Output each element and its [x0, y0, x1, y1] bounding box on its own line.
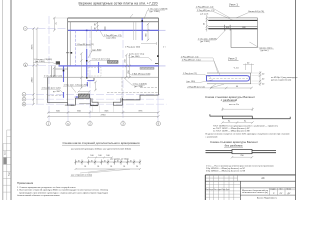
axis circle 3: [121, 121, 125, 125]
left grid verticals: [208, 175, 210, 200]
svg-text:(дл. 1300): (дл. 1300): [35, 61, 45, 63]
left wall line inner: [69, 22, 71, 66]
svg-text:производить при обвязке армату: производить при обвязке арматуры с карка…: [19, 191, 108, 194]
svg-text:В одном сечении стыкуется не б: В одном сечении стыкуется не более 50% а…: [206, 134, 291, 136]
axis row V horizontal: [28, 64, 58, 66]
bottom dim ticks 1: [47, 111, 159, 113]
node1 lower beam thick line: [208, 28, 257, 30]
node1 lower-left label leader: [216, 30, 226, 40]
svg-text:дл. 200: дл. 200: [53, 91, 61, 93]
blue rebar vertical at axis mid: [86, 49, 88, 78]
svg-text:250: 250: [125, 59, 127, 62]
axis row A horizontal: [26, 103, 167, 105]
header row for stage: [270, 189, 296, 191]
axis line 2 vertical: [89, 30, 91, 121]
node2 bottom dim: [211, 87, 252, 89]
svg-text:20: 20: [136, 166, 138, 168]
hatched embed plate mid: [140, 67, 154, 69]
strip verticals: [6, 130, 8, 200]
small dim x95.5 lower: [95, 82, 97, 90]
node1 lower mesh thin line: [208, 25, 257, 27]
axis line 1 vertical: [48, 16, 50, 121]
svg-text:(дл. 1300): (дл. 1300): [150, 11, 160, 13]
splice1 bar bottom: [222, 118, 290, 120]
splice1 bar hooks: [210, 114, 290, 118]
dim above bottom hatch plate: [79, 91, 90, 93]
svg-text:с разбежкой: с разбежкой: [206, 135, 219, 138]
axis circle 1: [46, 121, 50, 125]
strip horizontals narrow top: [7, 129, 11, 131]
svg-text:деталь закрепления): деталь закрепления): [271, 79, 292, 81]
svg-text:обвязочного пояса (м): обвязочного пояса (м): [242, 192, 268, 194]
divider before AC cell: [237, 175, 239, 181]
svg-text:с разбежкой: с разбежкой: [221, 98, 238, 102]
dashed inner horizontal y92.5: [107, 92, 158, 94]
channel top gray line: [207, 72, 251, 74]
plan top edge line second: [68, 21, 159, 23]
inner horizontal line y77: [48, 76, 158, 78]
sheet title underline: [79, 4, 158, 6]
extension line from top dim: [53, 17, 68, 19]
axis circle 5: [156, 121, 160, 125]
svg-text:10: 10: [117, 160, 119, 162]
left wall line outer: [67, 18, 69, 103]
splice2 bar bottom: [206, 152, 277, 154]
svg-text:3675: 3675: [32, 44, 34, 50]
splice1 top dim line: [222, 108, 252, 110]
inner dim x97: [97, 22, 99, 31]
left/right divider: [239, 181, 241, 200]
right part horizontals: [240, 187, 295, 189]
svg-text:250: 250: [128, 70, 130, 73]
svg-text:АС: АС: [261, 177, 265, 180]
axis circle V: [24, 63, 28, 67]
blue rebar vertical left: [63, 66, 65, 82]
svg-text:Подп.: Подп.: [8, 171, 10, 176]
inner dim x81.3: [80, 54, 82, 89]
svg-text:по ГОСТ 14098 — Ø8мм (Балкент): по ГОСТ 14098 — Ø8мм (Балкент) N8: [213, 131, 250, 133]
svg-text:Узел 1: Узел 1: [229, 2, 238, 6]
dashed inner horizontal y87.7: [140, 87, 157, 89]
dark block near axis V: [56, 61, 60, 64]
mesh edge pair x133: [132, 22, 134, 40]
leader label A: [100, 31, 104, 37]
hatched embed plate bottom: [79, 94, 90, 99]
svg-text:20: 20: [110, 166, 112, 168]
blue rebar vertical mid2: [98, 62, 100, 73]
svg-text:3 Вр 1Ø8/200 — Ø8мм (пр.Балкен: 3 Вр 1Ø8/200 — Ø8мм (пр.Балкент) по N8: [206, 171, 246, 173]
leader label C: [88, 51, 92, 58]
dark tick near blue corner: [93, 78, 95, 81]
svg-text:шаг рабочей арматуры 200мм, ша: шаг рабочей арматуры 200мм, шаг дополнит…: [71, 147, 132, 150]
axis row B2 horizontal: [26, 98, 166, 100]
svg-text:Схема шагов стержней дополните: Схема шагов стержней дополнительного арм…: [63, 141, 140, 145]
svg-text:базальтовой обвязке и проволоч: базальтовой обвязке и проволочками.: [17, 194, 60, 197]
svg-text:100: 100: [98, 155, 101, 157]
svg-text:Узел 2: Узел 2: [228, 57, 237, 61]
svg-text:(до бет.): (до бет.): [261, 50, 269, 52]
node1 bottom label leader: [250, 42, 259, 47]
svg-text:(шаг 200): (шаг 200): [107, 38, 116, 40]
plan top edge line thin: [68, 17, 159, 19]
svg-text:Согл.: Согл.: [5, 150, 7, 155]
node1 upper beam thick line: [208, 19, 257, 21]
svg-text:Верхние арматурные сетки плиты: Верхние арматурные сетки плиты на отм. +…: [79, 1, 158, 5]
paper background: [0, 0, 300, 200]
lower-left block outline: [48, 77, 159, 105]
mid blue slab line light tail: [159, 65, 166, 67]
lower-left inner box lines: [56, 68, 68, 70]
short dark dash right of hatch2: [155, 63, 158, 65]
svg-text:100: 100: [90, 155, 93, 157]
top small dim at x57: [53, 18, 55, 30]
weld tick slashes: [74, 161, 141, 163]
axis line 5 vertical lower: [157, 96, 159, 122]
junction dot bottom: [86, 77, 88, 79]
svg-text:(дл. 1300): (дл. 1300): [200, 41, 210, 43]
dim beside right blue vertical: [147, 24, 149, 40]
node1 inner wall line: [230, 29, 232, 48]
svg-text:Лист: Лист: [279, 188, 283, 190]
legend 3 lines: [206, 165, 274, 172]
axis row B horizontal: [26, 93, 160, 95]
weld bottom dim line: [76, 168, 141, 170]
small tick above blue line mid: [104, 27, 106, 31]
weld main dim line: [76, 161, 141, 163]
axis row G horizontal: [28, 28, 69, 30]
axis line 3 vertical: [122, 30, 124, 121]
gray signature cell: [3, 158, 6, 165]
top blue slab line light tail: [159, 29, 166, 31]
svg-text:(дл. 200): (дл. 200): [134, 86, 143, 88]
junction dot on blue line 1: [86, 30, 88, 32]
axis circle 1a: [66, 121, 70, 125]
mid blue slab line: [59, 65, 160, 67]
blue rebar corner lower-mid: [86, 82, 88, 87]
svg-text:Листов: Листов: [286, 188, 291, 190]
right wall line: [157, 18, 159, 95]
svg-text:20: 20: [97, 166, 99, 168]
channel blue outline: [207, 76, 250, 81]
svg-text:600: 600: [242, 27, 245, 29]
dashed inner vertical x122: [121, 77, 123, 103]
bottom dim line 2: [48, 115, 158, 117]
node1 vertical ticks on lower pair: [225, 25, 231, 31]
left dim chain vertical 2: [36, 29, 38, 105]
staple bracket left: [91, 98, 99, 105]
svg-text:30: 30: [203, 23, 205, 25]
hatched embed plate top: [108, 61, 119, 64]
axis line 1a vertical lower: [67, 103, 69, 121]
faint midline between staples: [98, 101, 113, 103]
junction dot right: [141, 20, 143, 22]
frame left border: [10, 0, 12, 200]
svg-text:2750: 2750: [101, 114, 107, 116]
axis circle A: [22, 102, 26, 106]
dashed box right of blue vertical: [88, 67, 101, 76]
axis circle B2: [22, 97, 26, 101]
node2 right dim vertical: [259, 71, 261, 86]
svg-text:10: 10: [91, 160, 93, 162]
svg-text:40: 40: [94, 28, 96, 30]
svg-text:2830: 2830: [32, 77, 34, 83]
right columns verticals: [269, 188, 271, 195]
channel inner dashed: [209, 77, 248, 79]
svg-text:ГОСТ 14098-91 стык арматуры вн: ГОСТ 14098-91 стык арматуры внахлёст с р…: [213, 124, 278, 127]
light upper extension of blue vertical: [86, 32, 88, 50]
svg-text:1 Ряд (шаг 200): 1 Ряд (шаг 200): [125, 46, 140, 48]
staple bracket right: [113, 98, 122, 105]
svg-text:100: 100: [106, 155, 109, 157]
junction dot on wall: [71, 52, 73, 54]
svg-text:ш.6 кат.6: ш.6 кат.6: [200, 14, 209, 16]
splice2 dim: [232, 156, 252, 158]
blue rebar vertical right: [141, 18, 143, 40]
splice1 bar top: [210, 115, 253, 117]
svg-text:300: 300: [226, 27, 229, 29]
node1 left dim vertical: [206, 15, 208, 32]
svg-text:~1.10: ~1.10: [233, 68, 239, 70]
node1 slab bottom: [231, 47, 258, 49]
svg-text:шаг не 1/а: шаг не 1/а: [229, 104, 240, 106]
weld bottom leaders: [80, 169, 130, 173]
svg-text:2. Выставление стержней армату: 2. Выставление стержней арматуры В500 на…: [17, 189, 108, 192]
junction dot top: [86, 60, 88, 62]
weld ticks: [76, 160, 141, 165]
svg-text:10: 10: [130, 160, 132, 162]
svg-text:20: 20: [123, 166, 125, 168]
svg-text:Стадия: Стадия: [270, 188, 275, 190]
left dim chain vertical 1: [33, 29, 35, 105]
extension lines below staples: [93, 106, 123, 113]
slab edge step lines under hatch: [79, 104, 98, 106]
sheet edge line: [2, 0, 4, 200]
node1 upper mesh thin line: [208, 17, 257, 19]
strip horizontals full: [3, 149, 11, 151]
bottom dim line 1: [48, 111, 158, 113]
full width row line: [205, 180, 295, 182]
inner dim x126.5 pair: [125, 55, 127, 77]
svg-text:10: 10: [78, 160, 80, 162]
left grid horizontals: [205, 184, 240, 186]
svg-text:без разбежки: без разбежки: [225, 143, 243, 147]
channel end plate vertical: [249, 73, 251, 84]
blue rebar vertical lower-left: [63, 92, 65, 98]
svg-text:10: 10: [104, 160, 106, 162]
dashed inner vertical at 75.5: [75, 30, 77, 65]
splice1 bottom dim: [222, 122, 252, 124]
mesh edge vertical x91: [90, 26, 92, 52]
svg-text:Авалон Недвижимость: Авалон Недвижимость: [257, 196, 277, 199]
node1 slab right edge: [257, 18, 259, 48]
svg-text:Примечания: Примечания: [17, 181, 34, 185]
bottom dim ticks 2: [47, 115, 159, 117]
axis circle G: [23, 27, 27, 31]
left dim ticks: [32, 27, 38, 105]
svg-text:1. Отметки армирования укладыв: 1. Отметки армирования укладывать на баз…: [17, 186, 76, 189]
channel bottom gray line: [207, 83, 251, 85]
title block outline: [205, 174, 295, 176]
splice2 lap box: [232, 149, 252, 153]
svg-text:шаг армир. не 50мм: шаг армир. не 50мм: [110, 158, 129, 160]
splice2 bar top: [206, 149, 277, 151]
top blue slab line: [68, 29, 159, 31]
svg-text:40: 40: [94, 24, 96, 26]
svg-text:20: 20: [84, 166, 86, 168]
frame right border: [295, 0, 297, 200]
svg-text:(дл. 800): (дл. 800): [131, 56, 140, 58]
revision band mid line: [205, 177, 237, 179]
short dashed line lower-left: [48, 95, 63, 97]
svg-text:1 т: 1 т: [163, 47, 166, 49]
axis circle B: [22, 93, 26, 97]
axis circle 2: [88, 121, 92, 125]
beam label leader: [236, 13, 248, 18]
blue arrow into hatch plate: [75, 96, 79, 97]
